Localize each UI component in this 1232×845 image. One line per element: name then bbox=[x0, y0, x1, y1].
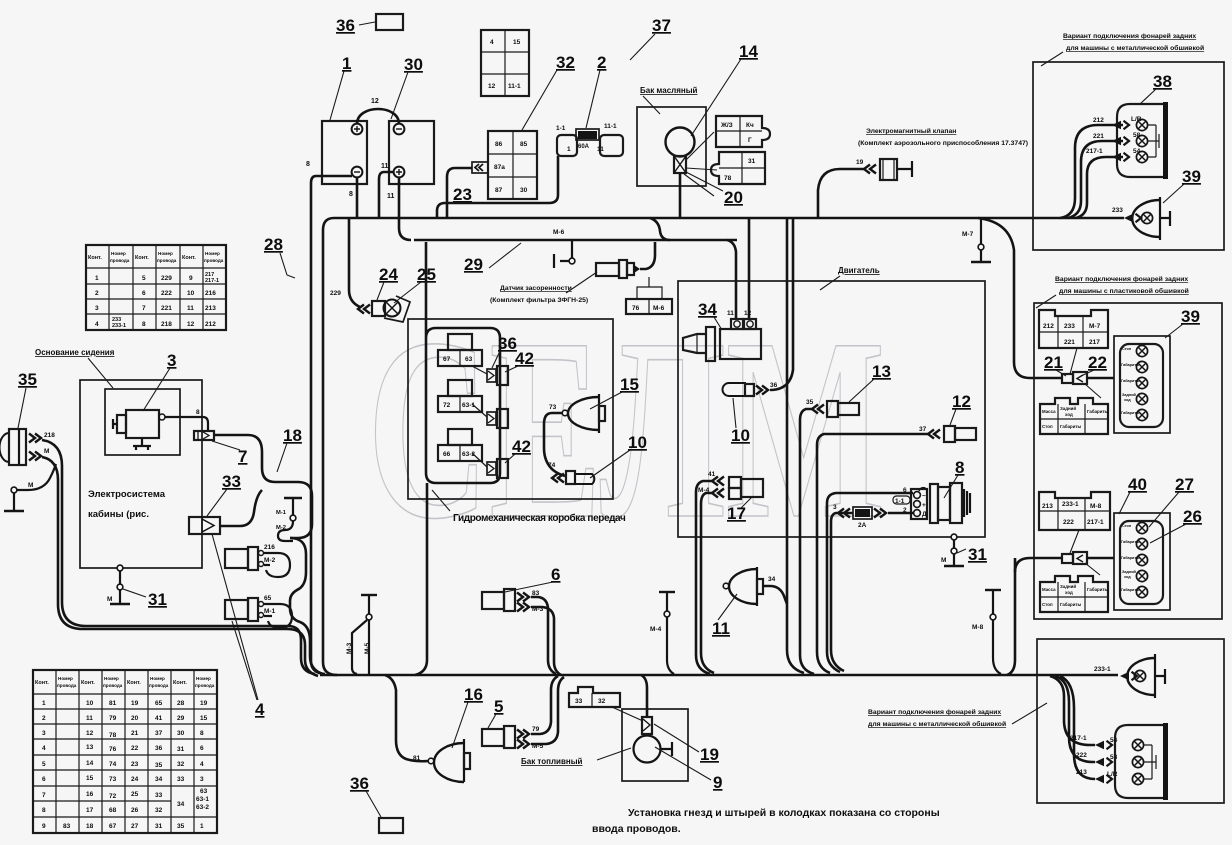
valve stem with T bar bbox=[897, 161, 912, 177]
connector block ZhZ/Kch/G bbox=[716, 116, 770, 147]
svg-text:22: 22 bbox=[1088, 353, 1107, 372]
svg-text:6: 6 bbox=[200, 745, 204, 752]
svg-text:216: 216 bbox=[264, 544, 275, 551]
lamp p3c bbox=[1136, 554, 1147, 565]
wire 217-1 to lamp 38c bbox=[1076, 157, 1123, 218]
svg-text:83: 83 bbox=[63, 823, 71, 830]
svg-text:12: 12 bbox=[86, 730, 94, 737]
svg-text:Ж/З: Ж/З bbox=[720, 122, 733, 129]
svg-text:М-6: М-6 bbox=[553, 229, 565, 236]
arrow 213 bbox=[1095, 775, 1112, 784]
svg-text:9: 9 bbox=[42, 823, 46, 830]
wire 11 from GB2 plus down to bus B bbox=[399, 177, 411, 240]
wire from fuse plug 1 down-left to bus A bbox=[437, 156, 558, 218]
svg-text:31: 31 bbox=[155, 823, 163, 830]
seat motor 3 bbox=[113, 410, 165, 450]
svg-text:32: 32 bbox=[598, 698, 606, 705]
svg-text:37: 37 bbox=[155, 730, 163, 737]
svg-text:76: 76 bbox=[109, 746, 117, 753]
svg-text:1: 1 bbox=[42, 700, 46, 707]
lamp p3a bbox=[1136, 522, 1147, 533]
lamp 38c bbox=[1136, 151, 1147, 162]
svg-text:М-4: М-4 bbox=[650, 626, 662, 633]
wires from 65 plug looping right bbox=[264, 604, 292, 628]
wire 6 from generator west then down bbox=[919, 488, 927, 493]
svg-text:27: 27 bbox=[1175, 475, 1194, 494]
ground M-8 stub bbox=[985, 589, 1001, 591]
chevrons from lamp 35 wire M bbox=[29, 452, 41, 461]
wire gearbox exit down to bottom bus bbox=[415, 483, 427, 675]
svg-text:73: 73 bbox=[549, 404, 557, 411]
svg-text:2: 2 bbox=[95, 290, 99, 297]
svg-text:81: 81 bbox=[109, 700, 117, 707]
svg-text:Стоп: Стоп bbox=[1042, 602, 1053, 607]
svg-text:8: 8 bbox=[200, 730, 204, 737]
svg-text:5: 5 bbox=[494, 697, 503, 716]
connector 36/42 pair A bbox=[487, 369, 496, 382]
wire connector west exiting panel bbox=[1015, 558, 1062, 572]
svg-text:ход: ход bbox=[1124, 398, 1131, 402]
connector block 76/M-6 bbox=[626, 299, 672, 314]
lamp 11 (engine) bbox=[723, 567, 763, 606]
svg-text:66: 66 bbox=[443, 451, 451, 458]
svg-text:26: 26 bbox=[131, 807, 139, 814]
svg-text:67: 67 bbox=[443, 356, 451, 363]
wires from 216 plug looping right bbox=[264, 553, 290, 577]
svg-text:Датчик засоренности: Датчик засоренности bbox=[500, 285, 572, 292]
panel 2 box bbox=[1034, 303, 1222, 619]
svg-text:11: 11 bbox=[387, 193, 395, 200]
svg-text:217-1: 217-1 bbox=[205, 278, 219, 284]
svg-text:3: 3 bbox=[95, 305, 99, 312]
svg-text:Габариты: Габариты bbox=[1121, 363, 1139, 367]
svg-text:Конт.: Конт. bbox=[182, 255, 196, 261]
connector 65/M-1 plug (4) bbox=[225, 598, 264, 621]
svg-text:Номер: Номер bbox=[111, 251, 126, 256]
svg-text:Номер: Номер bbox=[104, 676, 119, 681]
svg-text:1: 1 bbox=[567, 146, 571, 153]
oil tank box bbox=[637, 107, 706, 186]
sensor 10 (engine) loop bbox=[723, 383, 755, 396]
svg-text:Стоп: Стоп bbox=[1122, 347, 1132, 351]
svg-text:Конт.: Конт. bbox=[135, 255, 149, 261]
lamp p2b bbox=[1136, 361, 1147, 372]
chevrons 79 bbox=[517, 730, 529, 739]
svg-text:74: 74 bbox=[548, 462, 556, 469]
svg-text:29: 29 bbox=[177, 715, 185, 722]
svg-text:3: 3 bbox=[200, 776, 204, 783]
svg-text:1-1: 1-1 bbox=[895, 498, 905, 505]
svg-text:М-7: М-7 bbox=[962, 231, 974, 238]
plug 10 (gearbox) with chevrons 74 bbox=[552, 474, 564, 483]
svg-text:33: 33 bbox=[155, 792, 163, 799]
node 31 on cab box bbox=[117, 565, 123, 571]
svg-text:8: 8 bbox=[196, 409, 200, 416]
wire from bus down to connector 19 bbox=[641, 675, 647, 717]
svg-text:15: 15 bbox=[200, 715, 208, 722]
svg-text:34: 34 bbox=[177, 801, 185, 808]
svg-text:2: 2 bbox=[597, 53, 606, 72]
svg-text:М-7: М-7 bbox=[1089, 323, 1101, 330]
svg-text:Конт.: Конт. bbox=[173, 680, 187, 686]
svg-text:22: 22 bbox=[131, 745, 139, 752]
wire from plastic panel connector down to bottom bus (U) bbox=[1007, 558, 1015, 675]
svg-text:М-6: М-6 bbox=[653, 305, 665, 312]
svg-text:65: 65 bbox=[264, 595, 272, 602]
svg-text:провода: провода bbox=[103, 683, 123, 688]
connector 6 bbox=[482, 589, 515, 611]
svg-text:8: 8 bbox=[42, 807, 46, 814]
fuel sender T-bar bbox=[661, 742, 672, 756]
oil level sender circle bbox=[666, 128, 695, 157]
lamp p4c bbox=[1132, 773, 1143, 784]
ground M-7 stub hanging from bus A bbox=[980, 219, 982, 245]
svg-text:11-1: 11-1 bbox=[604, 123, 617, 130]
connector 23 bbox=[472, 162, 488, 173]
svg-text:Гидромеханическая коробка пере: Гидромеханическая коробка передач bbox=[453, 512, 626, 524]
svg-text:19: 19 bbox=[700, 745, 719, 764]
chevrons 37 bbox=[928, 430, 940, 439]
svg-text:Номер: Номер bbox=[205, 251, 220, 256]
svg-text:38: 38 bbox=[1153, 72, 1172, 91]
terminal - GB2 bbox=[394, 124, 405, 135]
leader block A to connector bbox=[1070, 348, 1077, 374]
svg-text:10: 10 bbox=[628, 433, 647, 452]
wire gearbox ring from bus B down left side bbox=[426, 242, 500, 483]
svg-text:М: М bbox=[107, 596, 112, 603]
svg-text:212: 212 bbox=[205, 321, 216, 328]
svg-text:30: 30 bbox=[177, 730, 185, 737]
harness bulge around connectors bbox=[290, 538, 323, 674]
svg-text:Конт.: Конт. bbox=[35, 680, 49, 686]
svg-text:233: 233 bbox=[1112, 207, 1123, 214]
svg-text:М: М bbox=[28, 482, 33, 489]
svg-text:39: 39 bbox=[1181, 307, 1200, 326]
arrow 217-1 bbox=[1095, 741, 1112, 750]
lamp p2e bbox=[1136, 409, 1147, 420]
svg-text:Конт.: Конт. bbox=[88, 255, 102, 261]
svg-text:63-2: 63-2 bbox=[196, 804, 209, 811]
connector 7 bbox=[194, 431, 214, 440]
svg-text:11: 11 bbox=[597, 146, 604, 153]
svg-text:провода: провода bbox=[149, 683, 169, 688]
svg-text:212: 212 bbox=[1043, 323, 1054, 330]
lamp p4b bbox=[1132, 756, 1143, 767]
leader connector to block D bbox=[1085, 563, 1100, 575]
panel 1 box bbox=[1033, 62, 1224, 250]
svg-text:79: 79 bbox=[532, 726, 540, 733]
svg-text:31: 31 bbox=[148, 590, 167, 609]
svg-text:23: 23 bbox=[453, 185, 472, 204]
rectangle 36 (bottom) bbox=[379, 818, 403, 833]
wire bottom bus (main lower harness) bbox=[320, 674, 1118, 677]
svg-text:32: 32 bbox=[556, 53, 575, 72]
svg-text:3: 3 bbox=[167, 351, 176, 370]
svg-text:35: 35 bbox=[806, 399, 814, 406]
wire bus A (main upper harness) bbox=[334, 217, 1124, 220]
label 1-1 (gen pin) bbox=[893, 496, 910, 504]
svg-text:74: 74 bbox=[109, 761, 117, 768]
svg-text:12: 12 bbox=[371, 98, 379, 105]
relay K2 72/63-1 bbox=[438, 380, 482, 412]
svg-text:58: 58 bbox=[1110, 754, 1118, 761]
wire connector to cluster (panel 3) bbox=[1087, 557, 1114, 560]
ground M-6 stub on bus B bbox=[560, 241, 572, 261]
svg-text:провода: провода bbox=[57, 683, 77, 688]
valve body bbox=[880, 159, 897, 180]
svg-text:217-1: 217-1 bbox=[1070, 735, 1087, 742]
svg-text:30: 30 bbox=[404, 55, 423, 74]
fuse 60A bbox=[578, 131, 597, 139]
svg-text:24: 24 bbox=[379, 265, 398, 284]
svg-text:15: 15 bbox=[86, 775, 94, 782]
svg-text:провода: провода bbox=[157, 258, 177, 263]
wire fillet bus A to bus B bbox=[650, 218, 670, 240]
svg-text:23: 23 bbox=[131, 761, 139, 768]
arrow 233-1 bbox=[1120, 672, 1137, 681]
svg-text:5: 5 bbox=[42, 761, 46, 768]
svg-text:10: 10 bbox=[86, 700, 94, 707]
svg-text:87а: 87а bbox=[494, 164, 505, 171]
svg-text:213: 213 bbox=[1076, 769, 1087, 776]
svg-text:Двигатель: Двигатель bbox=[838, 266, 880, 275]
svg-text:для машины с металлической обш: для машины с металлической обшивкой bbox=[1066, 44, 1204, 52]
svg-text:4: 4 bbox=[490, 39, 494, 46]
svg-text:19: 19 bbox=[200, 700, 208, 707]
svg-text:8: 8 bbox=[955, 458, 964, 477]
lamp cluster 38 container bbox=[1117, 104, 1163, 177]
wires from connector 5 up to bottom bus bbox=[531, 676, 558, 734]
lamp 233-1 bulb bbox=[1134, 670, 1145, 681]
arrow 222 bbox=[1095, 758, 1112, 767]
svg-text:217-1: 217-1 bbox=[1086, 148, 1103, 155]
svg-text:кабины (рис.: кабины (рис. bbox=[88, 509, 149, 520]
svg-text:1: 1 bbox=[342, 54, 351, 73]
chevron into valve bbox=[864, 165, 876, 174]
svg-text:65: 65 bbox=[155, 700, 163, 707]
svg-text:Масса: Масса bbox=[1042, 409, 1056, 414]
svg-text:Задний: Задний bbox=[1122, 393, 1137, 397]
svg-text:Габариты: Габариты bbox=[1060, 424, 1082, 429]
connector block D bbox=[1040, 576, 1109, 612]
lamp p2d bbox=[1136, 393, 1147, 404]
svg-text:8: 8 bbox=[142, 321, 146, 328]
leader lines from sender terminal to connectors and label 20 bbox=[684, 132, 723, 196]
svg-text:222: 222 bbox=[1076, 752, 1087, 759]
svg-text:15: 15 bbox=[513, 39, 521, 46]
connector block C bbox=[1039, 492, 1110, 530]
svg-text:85: 85 bbox=[520, 141, 528, 148]
svg-text:217-1: 217-1 bbox=[1087, 519, 1104, 526]
wire 73 from horn down to plug 74 bbox=[544, 413, 565, 476]
svg-text:М-5: М-5 bbox=[364, 642, 371, 654]
wire 8 from GB1 minus to left and down to bottom bus bbox=[311, 176, 352, 674]
chevrons M-4 bbox=[712, 489, 724, 498]
svg-text:11: 11 bbox=[727, 310, 734, 317]
svg-text:32: 32 bbox=[155, 807, 163, 814]
chevrons M-3 bbox=[517, 603, 529, 612]
svg-text:~: ~ bbox=[922, 493, 926, 500]
svg-text:Габариты: Габариты bbox=[1121, 379, 1139, 383]
svg-text:14: 14 bbox=[739, 42, 758, 61]
lamp p3e bbox=[1136, 586, 1147, 597]
svg-text:18: 18 bbox=[283, 426, 302, 445]
svg-text:87: 87 bbox=[495, 187, 503, 194]
wire M from lamp down left side bbox=[42, 457, 318, 676]
svg-text:11: 11 bbox=[187, 305, 194, 312]
svg-text:68: 68 bbox=[109, 807, 117, 814]
svg-text:58: 58 bbox=[1133, 132, 1141, 139]
connector 24/25 chevrons bbox=[358, 305, 370, 314]
svg-text:1-1: 1-1 bbox=[556, 125, 566, 132]
wire bundle from bus to lower cluster bbox=[1050, 676, 1095, 745]
connector 24 box bbox=[372, 301, 385, 316]
svg-text:ход: ход bbox=[1065, 412, 1073, 417]
svg-text:М: М bbox=[44, 448, 49, 455]
svg-text:Установка гнезд и штырей в кол: Установка гнезд и штырей в колодках пока… bbox=[628, 807, 940, 819]
svg-text:Бак масляный: Бак масляный bbox=[640, 86, 698, 95]
cluster loop (panel 3) bbox=[1120, 521, 1163, 604]
svg-text:76: 76 bbox=[632, 305, 640, 312]
svg-text:73: 73 bbox=[109, 776, 117, 783]
svg-text:Масса: Масса bbox=[1042, 587, 1056, 592]
connector 5 bbox=[482, 726, 515, 748]
wire 11 branch to bus A bbox=[379, 172, 394, 218]
chevrons M-5 bbox=[517, 740, 529, 749]
svg-text:218: 218 bbox=[44, 432, 55, 439]
wire from sender down to bus A bbox=[679, 173, 682, 218]
svg-text:4: 4 bbox=[255, 700, 265, 719]
svg-text:Вариант подключения фонарей за: Вариант подключения фонарей задних bbox=[1055, 275, 1188, 283]
lamp cluster box (panel 2) bbox=[1114, 336, 1170, 433]
wire 212 to lamp 38a bbox=[1060, 125, 1123, 218]
svg-text:20: 20 bbox=[724, 188, 743, 207]
svg-text:78: 78 bbox=[109, 732, 117, 739]
connector block 31/78 bbox=[711, 152, 765, 184]
chevrons 83 bbox=[517, 593, 529, 602]
svg-text:54: 54 bbox=[1133, 148, 1141, 155]
terminal - GB1 (lower) bbox=[352, 167, 363, 178]
svg-text:М-2: М-2 bbox=[264, 557, 276, 564]
connector 19 on tank bbox=[642, 717, 652, 734]
wire from valve to bus A bbox=[818, 169, 864, 218]
relay K1 67/63 bbox=[438, 334, 482, 366]
ground M-3/M-5 double stub bbox=[361, 594, 377, 596]
table 4/15/12/11-1 bbox=[481, 30, 529, 96]
svg-text:54: 54 bbox=[1110, 737, 1118, 744]
engine box bbox=[678, 281, 985, 537]
component 12 bbox=[944, 426, 976, 442]
svg-text:31: 31 bbox=[177, 746, 185, 753]
relay 32 box bbox=[488, 131, 537, 199]
svg-text:L/R: L/R bbox=[1107, 771, 1118, 778]
wire 2 with fuse 2A bbox=[831, 513, 913, 671]
svg-text:19: 19 bbox=[131, 700, 139, 707]
svg-text:34: 34 bbox=[698, 300, 717, 319]
mating connector pair bbox=[1062, 374, 1073, 383]
svg-text:Бак топливный: Бак топливный bbox=[521, 757, 583, 766]
svg-text:М-1: М-1 bbox=[264, 608, 276, 615]
svg-text:216: 216 bbox=[205, 290, 216, 297]
wire from connector 23 to bus A bbox=[447, 168, 472, 218]
ground at lamp 35 bbox=[11, 487, 17, 493]
svg-text:Кч: Кч bbox=[746, 122, 754, 129]
svg-text:32: 32 bbox=[177, 761, 185, 768]
svg-text:16: 16 bbox=[464, 685, 483, 704]
svg-text:3: 3 bbox=[833, 504, 837, 511]
wire bus B (second upper harness) bbox=[414, 239, 737, 242]
svg-text:Стоп: Стоп bbox=[1042, 424, 1053, 429]
svg-text:17: 17 bbox=[727, 504, 746, 523]
wires from connector 6 to bottom bus bbox=[531, 597, 556, 674]
cluster mount bar (panel 4) bbox=[1163, 723, 1168, 800]
svg-text:Номер: Номер bbox=[58, 676, 73, 681]
lamp p2a bbox=[1136, 345, 1147, 356]
battery GB1 box bbox=[322, 121, 367, 184]
cluster 38 mount bar bbox=[1163, 102, 1168, 179]
svg-text:(Комплект аэрозольного приспос: (Комплект аэрозольного приспособления 17… bbox=[858, 139, 1028, 147]
horn 16 bbox=[428, 739, 470, 782]
wire 229 stub from bus A bbox=[349, 218, 360, 307]
svg-text:Габариты: Габариты bbox=[1087, 409, 1109, 414]
wire bus A to plastic panel connector (feed) bbox=[978, 218, 1063, 378]
svg-text:233-1: 233-1 bbox=[1062, 501, 1079, 508]
svg-text:79: 79 bbox=[109, 715, 117, 722]
svg-text:2: 2 bbox=[42, 715, 46, 722]
svg-text:39: 39 bbox=[1182, 167, 1201, 186]
svg-text:11: 11 bbox=[712, 619, 730, 638]
leader from connector 33 to label 4 bbox=[212, 534, 258, 700]
svg-text:33: 33 bbox=[222, 472, 241, 491]
svg-text:218: 218 bbox=[161, 321, 172, 328]
svg-text:213: 213 bbox=[1042, 503, 1053, 510]
svg-text:(Комплект фильтра ЗФГН-25): (Комплект фильтра ЗФГН-25) bbox=[490, 297, 588, 304]
svg-text:233-1: 233-1 bbox=[1094, 666, 1111, 673]
chevrons 41 bbox=[712, 477, 724, 486]
svg-text:Габариты: Габариты bbox=[1060, 602, 1082, 607]
connector block A bbox=[1039, 310, 1108, 348]
svg-text:63-1: 63-1 bbox=[196, 796, 209, 803]
svg-text:Габариты: Габариты bbox=[1121, 588, 1139, 592]
svg-text:41: 41 bbox=[155, 715, 163, 722]
wire drop bus A to starter pin 12 bbox=[748, 218, 751, 318]
svg-text:72: 72 bbox=[109, 793, 117, 800]
svg-text:28: 28 bbox=[177, 700, 185, 707]
svg-text:Задний: Задний bbox=[1060, 406, 1076, 411]
connector 33 bbox=[189, 517, 220, 534]
svg-text:36: 36 bbox=[350, 774, 369, 793]
svg-text:229: 229 bbox=[161, 275, 172, 282]
svg-text:Конт.: Конт. bbox=[127, 680, 141, 686]
svg-text:60А: 60А bbox=[578, 144, 590, 150]
wire 8 from seat motor to connector 7 bbox=[165, 417, 208, 430]
wire 35 down to bottom bus bbox=[800, 409, 814, 674]
svg-text:17: 17 bbox=[86, 807, 94, 814]
horn button 25 circle bbox=[384, 300, 401, 317]
connector block B bbox=[1040, 398, 1109, 434]
svg-text:212: 212 bbox=[1093, 117, 1104, 124]
terminal + GB1 bbox=[352, 124, 363, 135]
fuel sender 9 circle bbox=[634, 736, 661, 763]
svg-text:для машины с металлической обш: для машины с металлической обшивкой bbox=[868, 720, 1006, 728]
svg-text:30: 30 bbox=[520, 187, 528, 194]
svg-text:12: 12 bbox=[187, 321, 195, 328]
lamp 38b bbox=[1136, 135, 1147, 146]
svg-text:М: М bbox=[941, 557, 946, 564]
seat base inner box bbox=[105, 389, 180, 455]
svg-text:12: 12 bbox=[488, 83, 496, 90]
svg-text:М-8: М-8 bbox=[1090, 503, 1102, 510]
